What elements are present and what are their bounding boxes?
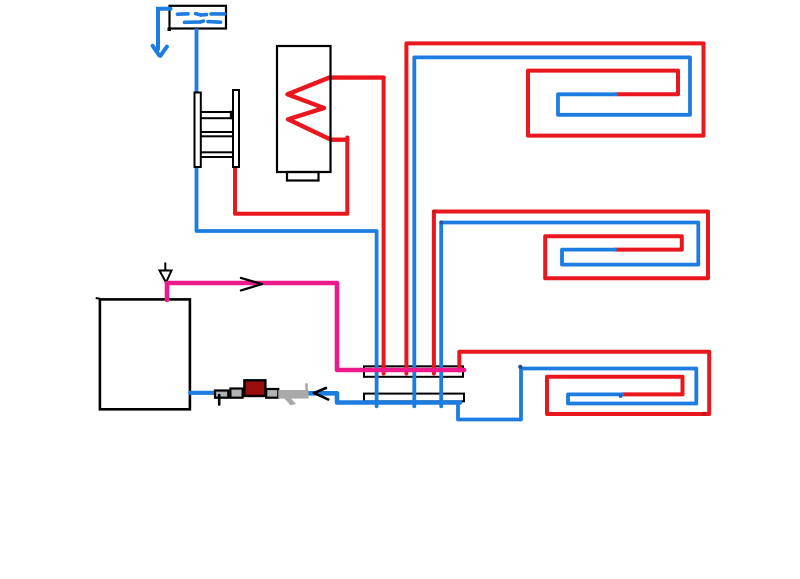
valve 1 with handle (215, 391, 228, 398)
corner dot loop2 red (432, 210, 436, 214)
radiator loop 3 red supply (459, 352, 709, 414)
heat exchanger rung 3 (200, 152, 233, 157)
arrow on blue pipe at pump inlet (314, 388, 328, 400)
top manifold bar (364, 366, 463, 377)
vent funnel triangle (160, 263, 172, 283)
corner dot loop3 red (702, 412, 706, 416)
gray flow arrow (278, 383, 308, 405)
heat exchanger rung 1 end blob (230, 111, 234, 119)
pump body (244, 380, 265, 396)
radiator loop 1 red supply (406, 43, 703, 373)
tank corner tick (96, 297, 101, 300)
header tank box (170, 6, 227, 29)
wire: red hot from heat exchanger to boiler (bottom) (235, 138, 347, 214)
magenta supply from tank to manifold (167, 283, 464, 370)
boiler body (277, 46, 331, 172)
heat exchanger rung 1 (200, 112, 233, 118)
header tank water dashes (178, 14, 225, 23)
radiator loop 2 blue return (441, 223, 698, 407)
corner dot loop3 blue (518, 365, 522, 369)
corner dot loop2 blue (439, 220, 443, 224)
wire: red boiler supply down to manifold (382, 78, 386, 374)
valve 3 (266, 389, 278, 398)
heat exchanger right bar (233, 90, 239, 167)
boiler bottom tab (287, 172, 319, 181)
wire: cold feed from header tank down (195, 29, 199, 96)
valve 2 (230, 389, 242, 398)
blue pipe tank to valve (190, 391, 215, 395)
radiator loop 1 blue return (414, 57, 690, 406)
boiler heating element zigzag (288, 78, 384, 140)
feed tank (100, 299, 190, 409)
header tank corner blob (168, 28, 172, 32)
radiator loop 3 blue return (458, 369, 696, 420)
wire: blue return from heat exchanger to manifold (197, 165, 377, 406)
bottom manifold bar (364, 394, 464, 402)
arrow on magenta pipe (241, 278, 262, 291)
blue return line from manifold to pump (306, 393, 460, 402)
radiator loop 2 red supply (434, 212, 708, 374)
heat exchanger rung 2 (200, 132, 233, 136)
heat exchanger left bar (195, 93, 201, 168)
junction dot loop3 transition (619, 394, 623, 398)
overflow pipe with down arrow (153, 9, 171, 56)
